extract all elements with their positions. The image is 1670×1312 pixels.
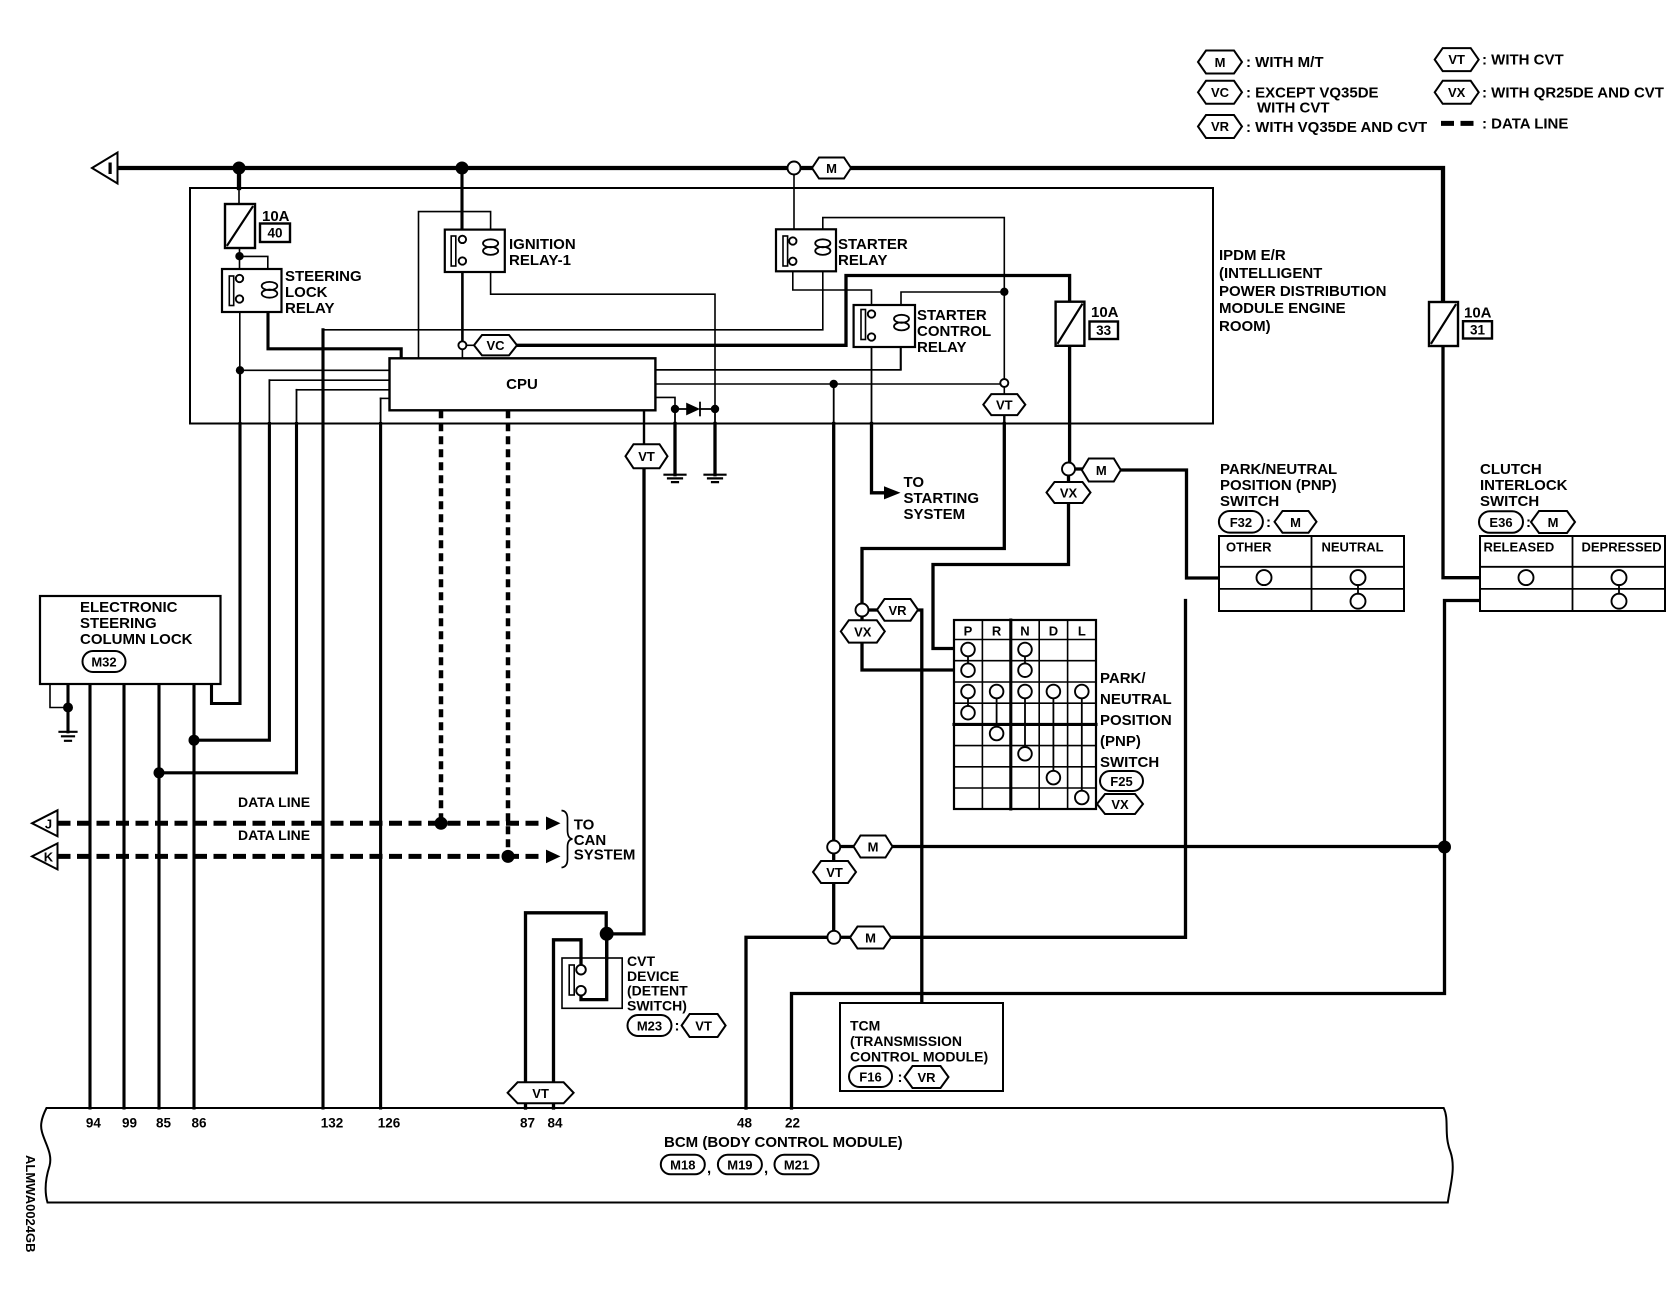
svg-text::: : [675, 1018, 680, 1035]
svg-text:85: 85 [156, 1116, 172, 1131]
svg-text:: WITH VQ35DE AND CVT: : WITH VQ35DE AND CVT [1246, 119, 1427, 136]
svg-text:(TRANSMISSION: (TRANSMISSION [850, 1033, 962, 1049]
svg-text:VT: VT [695, 1019, 712, 1034]
svg-text:M23: M23 [637, 1019, 662, 1034]
svg-text:N: N [1020, 624, 1029, 639]
svg-text:L: L [1078, 624, 1086, 639]
svg-text:BCM (BODY CONTROL MODULE): BCM (BODY CONTROL MODULE) [664, 1134, 903, 1151]
svg-text:M: M [868, 840, 879, 855]
svg-text:PARK/NEUTRAL: PARK/NEUTRAL [1220, 461, 1337, 478]
svg-text::: : [1266, 514, 1271, 531]
svg-text:VX: VX [1111, 797, 1129, 812]
svg-text:J: J [45, 816, 52, 831]
svg-text:87: 87 [520, 1116, 535, 1131]
svg-text:: WITH QR25DE AND CVT: : WITH QR25DE AND CVT [1482, 85, 1664, 102]
svg-text:,: , [764, 1160, 768, 1177]
svg-text:,: , [707, 1160, 711, 1177]
svg-text:VR: VR [888, 603, 907, 618]
svg-text:STARTER: STARTER [838, 236, 908, 253]
svg-text:10A: 10A [262, 208, 290, 225]
svg-text:DEPRESSED: DEPRESSED [1582, 540, 1662, 555]
svg-text:STARTER: STARTER [917, 307, 987, 324]
svg-text:SWITCH: SWITCH [1480, 493, 1539, 510]
svg-text:WITH CVT: WITH CVT [1257, 100, 1330, 117]
svg-text:RELAY-1: RELAY-1 [509, 252, 571, 269]
svg-text:VR: VR [917, 1070, 936, 1085]
svg-text:P: P [964, 624, 973, 639]
svg-text:E36: E36 [1489, 515, 1512, 530]
svg-text:R: R [992, 624, 1002, 639]
svg-text:CVT: CVT [627, 953, 655, 969]
svg-text:VX: VX [1448, 85, 1466, 100]
svg-text:SYSTEM: SYSTEM [574, 847, 636, 864]
svg-text:POSITION: POSITION [1100, 712, 1172, 729]
svg-text:M32: M32 [91, 655, 116, 670]
svg-text:22: 22 [785, 1116, 800, 1131]
svg-text:94: 94 [86, 1116, 102, 1131]
svg-text:M: M [1548, 515, 1559, 530]
svg-text:TO: TO [904, 474, 925, 491]
svg-text:VC: VC [1211, 85, 1230, 100]
svg-text:126: 126 [378, 1116, 401, 1131]
svg-text:VT: VT [996, 398, 1013, 413]
svg-text:POSITION (PNP): POSITION (PNP) [1220, 477, 1337, 494]
svg-text:IPDM E/R: IPDM E/R [1219, 247, 1286, 264]
svg-text:ELECTRONIC: ELECTRONIC [80, 599, 178, 616]
svg-text:RELAY: RELAY [285, 300, 334, 317]
svg-text:VC: VC [486, 338, 505, 353]
svg-text:IGNITION: IGNITION [509, 236, 576, 253]
svg-text:STEERING: STEERING [285, 268, 362, 285]
svg-text:VX: VX [854, 624, 872, 639]
svg-text:: DATA LINE: : DATA LINE [1482, 116, 1568, 133]
svg-text:M: M [1096, 463, 1107, 478]
svg-text:40: 40 [267, 226, 282, 241]
svg-text:VT: VT [532, 1086, 549, 1101]
svg-text:M: M [1290, 515, 1301, 530]
svg-text:VT: VT [638, 449, 655, 464]
svg-text:SWITCH: SWITCH [1220, 493, 1279, 510]
svg-text:: WITH CVT: : WITH CVT [1482, 52, 1564, 69]
svg-text:RELAY: RELAY [917, 339, 966, 356]
svg-text:POWER DISTRIBUTION: POWER DISTRIBUTION [1219, 283, 1387, 300]
svg-text:F16: F16 [859, 1070, 881, 1085]
svg-text::: : [1526, 514, 1531, 531]
svg-text:RELEASED: RELEASED [1484, 540, 1555, 555]
svg-text:VT: VT [1448, 52, 1465, 67]
svg-text:DATA LINE: DATA LINE [238, 827, 310, 843]
svg-text:NEUTRAL: NEUTRAL [1100, 691, 1172, 708]
svg-text:84: 84 [547, 1116, 563, 1131]
svg-text:DEVICE: DEVICE [627, 968, 679, 984]
svg-text:ROOM): ROOM) [1219, 318, 1271, 335]
svg-text:F32: F32 [1230, 515, 1252, 530]
svg-text:D: D [1049, 624, 1058, 639]
svg-text:RELAY: RELAY [838, 252, 887, 269]
svg-text:48: 48 [737, 1116, 753, 1131]
svg-text:(DETENT: (DETENT [627, 983, 688, 999]
svg-text:M19: M19 [727, 1158, 752, 1173]
svg-text:86: 86 [191, 1116, 207, 1131]
svg-text:M18: M18 [670, 1158, 695, 1173]
svg-text:F25: F25 [1110, 774, 1132, 789]
svg-text:VT: VT [826, 865, 843, 880]
svg-text:OTHER: OTHER [1226, 540, 1272, 555]
svg-text:DATA LINE: DATA LINE [238, 794, 310, 810]
svg-text:M: M [826, 161, 837, 176]
svg-text:MODULE ENGINE: MODULE ENGINE [1219, 300, 1346, 317]
svg-text:SWITCH): SWITCH) [627, 997, 687, 1013]
svg-text:STEERING: STEERING [80, 615, 157, 632]
svg-text:VR: VR [1211, 119, 1230, 134]
svg-text:(PNP): (PNP) [1100, 733, 1141, 750]
svg-text:M21: M21 [784, 1158, 809, 1173]
svg-text:99: 99 [122, 1116, 137, 1131]
svg-text:31: 31 [1470, 323, 1486, 338]
svg-text:33: 33 [1096, 323, 1112, 338]
svg-text:TO: TO [574, 817, 595, 834]
svg-text:TCM: TCM [850, 1018, 880, 1034]
svg-text:M: M [865, 931, 876, 946]
svg-text:VX: VX [1060, 486, 1078, 501]
svg-text:COLUMN LOCK: COLUMN LOCK [80, 631, 193, 648]
svg-text:CPU: CPU [506, 376, 538, 393]
svg-text:PARK/: PARK/ [1100, 670, 1146, 687]
svg-text:10A: 10A [1464, 305, 1492, 322]
svg-text:CONTROL: CONTROL [917, 323, 991, 340]
svg-text:(INTELLIGENT: (INTELLIGENT [1219, 265, 1322, 282]
svg-text::: : [898, 1069, 903, 1086]
svg-text:K: K [44, 849, 54, 864]
svg-text:STARTING: STARTING [904, 490, 980, 507]
svg-text:LOCK: LOCK [285, 284, 328, 301]
svg-text:SYSTEM: SYSTEM [904, 506, 966, 523]
svg-text:ALMWA0024GB: ALMWA0024GB [23, 1155, 38, 1253]
svg-text:INTERLOCK: INTERLOCK [1480, 477, 1568, 494]
svg-text:M: M [1215, 55, 1226, 70]
svg-text:: WITH M/T: : WITH M/T [1246, 54, 1323, 71]
svg-text:CONTROL MODULE): CONTROL MODULE) [850, 1049, 988, 1065]
svg-text:CLUTCH: CLUTCH [1480, 461, 1542, 478]
svg-text:132: 132 [321, 1116, 344, 1131]
svg-text:10A: 10A [1091, 304, 1119, 321]
svg-text:SWITCH: SWITCH [1100, 754, 1159, 771]
svg-text:NEUTRAL: NEUTRAL [1322, 540, 1384, 555]
